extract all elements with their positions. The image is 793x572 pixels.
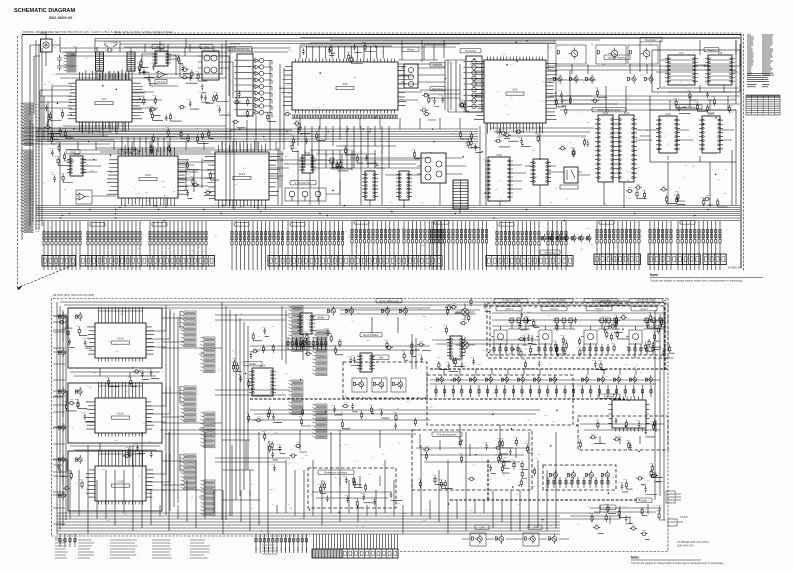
VCO cell 4 parts	[642, 313, 674, 358]
bottom block dashed frame	[52, 299, 669, 552]
svg-text:VCO 2: VCO 2	[550, 307, 558, 311]
TX output parts	[589, 504, 666, 540]
vertical wire bundle center	[222, 302, 286, 520]
label box op buffer	[460, 49, 481, 53]
wire bundle around IC1	[56, 40, 284, 154]
memory IC7	[665, 51, 698, 85]
vertical drops IC5 to bus	[298, 150, 389, 205]
discrete scatter B	[289, 120, 325, 151]
discrete scatter mid I	[339, 339, 431, 366]
label box lpf right	[600, 505, 616, 509]
discrete column left of IC1	[43, 104, 64, 133]
ladder connector LC1a	[181, 311, 197, 347]
svg-text:Reset: Reset	[407, 47, 414, 51]
label box buffer IC28	[313, 315, 329, 319]
buffer IC22	[656, 112, 680, 153]
resistor network RN3	[453, 180, 468, 209]
wire band mid center	[278, 146, 430, 205]
input transistor Q32a	[58, 455, 65, 464]
crystal filter block	[609, 397, 650, 432]
thick dash vertical TX	[488, 300, 665, 500]
wires IC4 column	[253, 61, 272, 117]
wires mid band	[83, 155, 421, 196]
wires vco bank	[492, 313, 664, 358]
bus y135 junction dots	[73, 128, 464, 142]
discrete scatter mid J	[255, 403, 417, 429]
mixer right parts	[619, 463, 663, 494]
top block frame	[22, 35, 741, 269]
svg-text:Circuits are subject to change: Circuits are subject to change without n…	[631, 561, 724, 565]
discrete scatter left mid	[49, 149, 74, 183]
transistor column Q1-Q9	[255, 58, 264, 114]
svg-text:IC25: IC25	[117, 412, 124, 416]
resistor array row RA8	[431, 225, 488, 243]
label box pll	[290, 181, 316, 185]
logic IC19	[530, 159, 551, 185]
connector ladder mid	[289, 306, 304, 352]
resistor array row RA12	[649, 225, 672, 243]
switch cell row	[540, 234, 547, 243]
svg-text:Switching: Switching	[544, 250, 556, 254]
svg-text:RF UNIT (PLL) (X50-XXX-XX) (B/: RF UNIT (PLL) (X50-XXX-XX) (B/3)	[53, 293, 94, 297]
svg-text:VCO 3: VCO 3	[595, 307, 603, 311]
wires group 2 top pins	[98, 382, 142, 395]
svg-text:Voltage detector: Voltage detector	[608, 55, 627, 59]
wires left jack area	[30, 37, 76, 115]
wires IC3 area	[185, 48, 233, 98]
legend col 5	[190, 540, 210, 558]
svg-text:Note:: Note:	[631, 556, 640, 560]
sub-box PLL group 1	[68, 308, 162, 368]
label box regulator	[640, 38, 662, 42]
svg-text:LPF: LPF	[480, 525, 485, 529]
wires bottom row to connector	[256, 547, 306, 553]
regulator transistor Q12	[628, 45, 658, 64]
svg-text:IC18: IC18	[496, 153, 502, 157]
wires right parts row	[550, 96, 740, 110]
vertical drops bus to IC11	[122, 137, 170, 152]
wires mid horizontals	[160, 410, 540, 450]
reference oscillator dashed box	[308, 468, 396, 508]
resistor array row RA2	[87, 227, 141, 245]
discrete scatter right under keyer	[673, 91, 730, 114]
label box preamp	[432, 432, 462, 436]
ladder connector LC3a	[181, 454, 197, 490]
discrete scatter between IC11 IC12	[184, 160, 219, 198]
cluster label boxes bottom rows	[90, 223, 105, 227]
ladder connector LC3b	[201, 480, 216, 516]
dashed box TX mixer	[578, 416, 668, 450]
svg-text:IC7: IC7	[679, 51, 684, 55]
pin voltage table	[746, 95, 780, 115]
wire bundle IC5 verticals	[230, 76, 422, 154]
svg-text:Buffer: Buffer	[250, 362, 257, 366]
VCO frequency label boxes	[494, 299, 528, 303]
display controller IC5	[279, 59, 409, 119]
TX mixer wires	[580, 420, 664, 444]
opto array IC10	[464, 56, 485, 112]
svg-text:LPF: LPF	[606, 505, 611, 509]
top edge wires bottom block	[60, 302, 664, 308]
input transistor Q31a	[58, 387, 65, 396]
label box det IC29	[373, 355, 389, 359]
connector CN8	[703, 254, 726, 265]
svg-text:W 9506 30: W 9506 30	[728, 266, 741, 270]
center bundle components	[230, 351, 252, 422]
logic IC14	[299, 151, 316, 173]
ladder connector LC1b	[201, 337, 216, 373]
discrete scatter D	[553, 88, 607, 116]
group 1 discretes	[58, 319, 91, 348]
microcontroller IC1	[67, 69, 145, 133]
svg-text:IC1: IC1	[102, 97, 107, 101]
svg-text:Buffer: Buffer	[318, 315, 325, 319]
input transistor Q32c	[58, 491, 65, 500]
discrete scatter C	[494, 128, 589, 157]
connection note lines	[747, 74, 764, 82]
label box 2nd mixer	[376, 299, 402, 303]
dashed box reference	[343, 362, 427, 398]
wires right mid	[450, 130, 734, 189]
label box IC3 designator	[200, 45, 213, 49]
svg-text:Operational amp: Operational amp	[230, 47, 250, 51]
label fuzz bottom block	[58, 302, 666, 530]
discrete scatter A	[149, 127, 214, 155]
resistor array row RA7	[403, 225, 443, 243]
svg-text:Op buffer: Op buffer	[465, 49, 476, 53]
resistor array row RA13	[677, 225, 721, 243]
interface IC2	[152, 47, 171, 66]
discrete scatter mid L	[487, 437, 535, 476]
LPF cell 1	[475, 525, 489, 529]
bus right risers	[560, 505, 620, 519]
label box IF count	[592, 108, 626, 112]
discrete scatter between IC3 IC5	[232, 90, 291, 127]
svg-text:IC21: IC21	[624, 111, 630, 115]
memory IC8	[705, 51, 735, 85]
wire bundle lower mid	[60, 150, 710, 214]
transistor cells row upper mid	[327, 306, 335, 315]
discrete scatter F	[459, 130, 481, 152]
right vertical bundle bottom block	[655, 306, 664, 520]
resistor network RN2	[127, 52, 135, 71]
buffer row cells	[436, 375, 443, 384]
resistor network RN1	[96, 52, 104, 71]
LCD driver IC12	[204, 141, 281, 210]
ladder connector LC2a	[181, 386, 197, 422]
VCO cell varactor rows	[508, 318, 530, 329]
label box ref osc	[360, 333, 382, 337]
svg-text:28.195-29.195M: 28.195-29.195M	[637, 299, 656, 303]
discrete scatter G	[49, 127, 73, 152]
wires group 1 top pins	[98, 307, 142, 320]
connector CN7	[648, 254, 700, 265]
svg-text:VCO 1: VCO 1	[505, 307, 513, 311]
shift register IC15	[362, 171, 378, 200]
ladder connector LC2b	[201, 412, 216, 448]
svg-text:TX-RX: TX-RX	[680, 515, 688, 519]
wires IC1 left bus	[40, 86, 72, 142]
buffer IC23	[699, 112, 723, 153]
main horizontal bus y135 band	[36, 129, 478, 142]
relay K1	[560, 167, 582, 189]
svg-text:IC11: IC11	[145, 173, 151, 177]
wires bus to bottom connector	[256, 534, 398, 551]
output connector CN20	[666, 491, 681, 503]
left strip pin labels	[35, 105, 40, 232]
legend col 6	[262, 542, 278, 554]
bottom component row	[255, 534, 308, 547]
bottom connector CN22	[312, 549, 342, 558]
label box xtal filter	[598, 394, 620, 398]
wires IC5 top fan	[300, 40, 600, 59]
input transistor Q31b	[75, 387, 82, 396]
left edge wires bottom block	[53, 302, 68, 534]
connector CN3	[80, 256, 214, 267]
connector CN10 strip	[21, 103, 34, 146]
op-amp U1	[156, 71, 168, 78]
wire bundle left vertical	[30, 40, 42, 230]
label box reference osc	[318, 470, 354, 474]
connector CN5	[486, 256, 573, 267]
op-amp module U2	[76, 190, 92, 204]
VCO cell 3 parts	[601, 314, 629, 352]
connector CN2	[42, 256, 76, 267]
svg-text:PLL: PLL	[55, 536, 60, 540]
svg-text:Ref 12.8MHz: Ref 12.8MHz	[363, 333, 379, 337]
legend col 4	[152, 540, 172, 558]
shift register IC16	[396, 171, 412, 200]
label box keyer	[704, 48, 719, 52]
wires above IC5	[300, 40, 460, 62]
wires group 3 left stubs	[53, 459, 67, 495]
buffer upper parts row	[438, 357, 606, 371]
connection note lines 2	[762, 74, 770, 82]
wires group 2 left stubs	[53, 391, 67, 427]
input transistor Q30b	[75, 312, 82, 321]
label fuzz rows band	[50, 226, 728, 251]
label box buffer mid	[244, 362, 262, 366]
wires group 1 left stubs	[53, 316, 67, 352]
connector CN6	[594, 254, 640, 265]
label box operational amp	[228, 47, 252, 51]
resistor array row RA10	[547, 227, 567, 245]
discrete scatter H2	[141, 96, 182, 122]
svg-text:Note:: Note:	[650, 273, 659, 277]
parts between PLL groups	[106, 368, 160, 387]
footnote lines	[747, 85, 757, 87]
wires IC5-IC6 gap	[398, 60, 460, 112]
svg-text:IC6: IC6	[513, 88, 518, 92]
VCO cell 2 parts	[553, 317, 581, 356]
input transistor Q32b	[75, 455, 82, 464]
bottom connector hatch	[313, 550, 340, 558]
input transistor Q30a	[58, 312, 65, 321]
svg-text:IC24: IC24	[117, 337, 124, 341]
connector ladder mid4	[313, 404, 328, 439]
dashed lead-out bottom left	[20, 263, 78, 287]
resistor array row RA1	[43, 227, 81, 245]
buffer row resistors	[435, 385, 652, 397]
svg-text:Reference oscillator: Reference oscillator	[325, 470, 348, 474]
connector ladder mid3	[289, 380, 304, 415]
wire bundle IC4 region	[226, 43, 284, 210]
svg-text:CONTROL, MICROPHONE SECTION (X: CONTROL, MICROPHONE SECTION (X53-XXX-XX …	[22, 30, 173, 34]
wires RN to IC1	[97, 47, 132, 80]
IF counter IC20	[595, 111, 616, 182]
wires group 3 top pins	[98, 450, 142, 463]
bus under IC1	[36, 122, 232, 137]
bus y135 drops	[60, 118, 460, 150]
wires mid band bottom block	[250, 310, 540, 369]
connector ladder mid2	[313, 330, 328, 376]
sub-box PLL group 2	[68, 383, 162, 443]
net label column right	[762, 35, 774, 75]
svg-text:IC14: IC14	[305, 151, 311, 155]
keyer sub frame	[652, 50, 740, 92]
svg-text:25.145-25.645M: 25.145-25.645M	[592, 299, 611, 303]
wires above IC1	[60, 44, 290, 56]
label box vco1 main	[600, 301, 628, 305]
reference osc parts	[317, 476, 402, 508]
footnote lines 2	[762, 85, 769, 87]
VCO cell 3	[581, 307, 612, 348]
predriver wires	[416, 440, 528, 462]
label box switching	[430, 87, 445, 91]
wires top header extra	[60, 38, 740, 54]
label box detector	[430, 63, 445, 67]
osc transistor Q41	[372, 378, 387, 392]
test point box TP1	[155, 80, 167, 84]
component row mid1	[287, 337, 327, 350]
net label column left	[747, 35, 754, 75]
discrete parts mid top	[420, 92, 469, 120]
pre-driver parts	[417, 438, 528, 489]
dashed box predriver	[412, 430, 532, 490]
VCO bottom resistor rows	[493, 344, 519, 355]
PLL synthesizer IC24	[86, 320, 155, 362]
VCO bank dashed box	[487, 303, 668, 358]
VCO cell 4	[626, 307, 657, 348]
input transistor Q31c	[58, 423, 65, 432]
label box voltage detector	[604, 55, 630, 59]
svg-text:TP-101: TP-101	[157, 80, 166, 84]
transistor array IC3	[198, 51, 223, 80]
LCD driver IC11	[107, 145, 189, 207]
data bus band	[36, 206, 740, 221]
transistor array IC17	[417, 153, 450, 183]
discrete parts near IC3	[176, 54, 208, 83]
resistor array row RA6	[351, 225, 399, 243]
group right wire runs	[162, 315, 290, 490]
svg-text:IC13: IC13	[70, 150, 76, 154]
discrete scatter mid H	[251, 327, 343, 355]
wires rows to connectors	[44, 243, 720, 270]
wires midband extra	[280, 150, 420, 170]
regulator transistor Q11	[596, 45, 626, 64]
svg-text:Buffer: Buffer	[641, 498, 648, 502]
buffer IC28	[297, 313, 315, 334]
long verticals between groups	[166, 305, 178, 515]
svg-text:Detector: Detector	[433, 63, 443, 67]
legend col 1	[55, 540, 68, 558]
label box backup	[118, 150, 138, 154]
connector CN1 column	[64, 52, 77, 72]
svg-text:(X54-XXX-XX): (X54-XXX-XX)	[677, 544, 694, 548]
mixer IC27	[249, 364, 276, 396]
wires regulator row	[548, 44, 740, 74]
svg-text:TX-B/W/M UNIT (X41-XXX): TX-B/W/M UNIT (X41-XXX)	[677, 540, 709, 544]
svg-text:VCO 4: VCO 4	[640, 307, 648, 311]
capacitor group C1-C4	[57, 55, 62, 71]
mixer symbol M1	[456, 304, 475, 321]
wire bundle top header	[95, 39, 740, 53]
legend col 2	[78, 540, 94, 558]
VCO cell 1	[491, 307, 522, 348]
output connector CN21	[668, 515, 688, 526]
center column extra wires	[222, 440, 260, 500]
wire jack leads	[40, 33, 60, 66]
resistor array row RA4	[231, 227, 284, 245]
mixer row resistors	[547, 477, 609, 488]
osc transistor Q40	[352, 378, 367, 392]
wires between IC11 IC12	[178, 158, 215, 192]
dashed box PA	[427, 375, 573, 425]
junction dots top block	[57, 40, 717, 194]
svg-text:Circuits are subject to change: Circuits are subject to change without n…	[650, 279, 743, 283]
wire bundle mid right	[470, 64, 740, 205]
PLL synthesizer IC26	[86, 463, 154, 505]
thick dashed bus mid	[250, 369, 668, 399]
wires bus to rows	[44, 221, 720, 227]
label box buffer right	[636, 498, 652, 502]
EEPROM IC13	[67, 152, 86, 176]
svg-text:IC23: IC23	[708, 112, 714, 116]
crystal X2	[328, 158, 352, 169]
keyer IC8 internal hatch	[710, 60, 730, 80]
wires reference box	[312, 476, 392, 498]
VCO cell 1 parts	[518, 311, 541, 357]
mixer symbol M2	[456, 337, 475, 354]
microphone jack J1	[41, 39, 53, 52]
group 2 discretes	[64, 399, 96, 422]
input transistor Q30c	[58, 348, 65, 357]
resistor array row RA9	[496, 227, 540, 245]
wires buffer row	[430, 369, 660, 384]
VCO cell 2	[536, 307, 567, 348]
label box IC2 designator	[152, 45, 164, 49]
discrete parts near IC2	[136, 59, 158, 84]
svg-text:B52-0600-00: B52-0600-00	[49, 15, 73, 20]
wires IC2 area	[142, 54, 180, 86]
svg-text:IC26: IC26	[117, 480, 124, 484]
wires between PLL groups	[70, 368, 160, 452]
PLL synthesizer IC25	[86, 395, 154, 437]
svg-text:4M IF amp: 4M IF amp	[683, 105, 696, 109]
legend col 3	[110, 540, 137, 558]
VCO bank inner dashed box	[490, 306, 665, 355]
TX output wires	[590, 504, 660, 524]
bus junction dots	[60, 205, 709, 222]
wires group 1 right	[146, 311, 204, 354]
crystal X1	[104, 41, 118, 53]
label fuzz top block	[43, 40, 737, 204]
resistor array row RA3	[149, 227, 207, 245]
svg-text:4.19 MHz PLL: 4.19 MHz PLL	[295, 181, 312, 185]
TX mixer parts	[577, 418, 655, 450]
discrete scatter above IC5	[300, 42, 376, 63]
discrete scatter E	[626, 184, 728, 207]
